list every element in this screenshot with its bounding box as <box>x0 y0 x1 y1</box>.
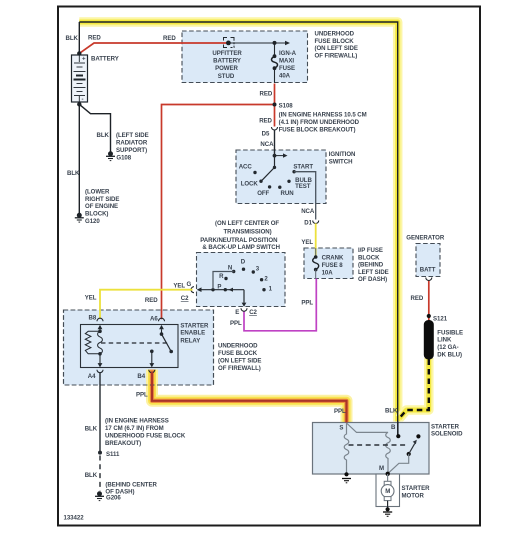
svg-text:SWITCH: SWITCH <box>329 159 353 166</box>
svg-text:OF DASH): OF DASH) <box>358 276 387 283</box>
svg-text:B4: B4 <box>137 373 145 380</box>
svg-text:BREAKOUT): BREAKOUT) <box>105 440 141 447</box>
svg-text:G108: G108 <box>116 155 131 162</box>
svg-text:10A: 10A <box>322 270 334 277</box>
svg-text:BATTERY: BATTERY <box>213 58 241 65</box>
svg-text:P: P <box>217 283 221 290</box>
svg-text:FUSE: FUSE <box>279 65 295 72</box>
svg-text:BLK: BLK <box>85 472 98 479</box>
svg-text:LOCK: LOCK <box>241 181 259 188</box>
svg-text:D: D <box>241 258 246 265</box>
svg-text:YEL: YEL <box>85 295 97 302</box>
svg-text:BLOCK: BLOCK <box>358 254 380 261</box>
svg-text:& BACK-UP LAMP SWITCH: & BACK-UP LAMP SWITCH <box>202 244 280 251</box>
svg-text:M: M <box>379 465 384 472</box>
svg-text:RED: RED <box>163 35 176 42</box>
svg-text:RUN: RUN <box>281 190 294 197</box>
svg-text:OF FIREWALL): OF FIREWALL) <box>218 365 261 372</box>
svg-text:DK BLU): DK BLU) <box>437 351 462 358</box>
svg-text:SOLENOID: SOLENOID <box>431 431 463 438</box>
svg-text:S108: S108 <box>279 103 294 110</box>
svg-text:-: - <box>82 96 84 103</box>
svg-text:UNDERHOOD: UNDERHOOD <box>218 343 258 350</box>
svg-text:MAXI: MAXI <box>279 58 294 65</box>
svg-text:G: G <box>187 281 192 288</box>
svg-text:A4: A4 <box>88 373 96 380</box>
svg-text:YEL: YEL <box>301 239 313 246</box>
svg-text:(ON LEFT CENTER OF: (ON LEFT CENTER OF <box>215 220 279 227</box>
svg-text:R: R <box>219 273 224 280</box>
svg-text:MOTOR: MOTOR <box>402 492 425 499</box>
svg-text:FUSE BLOCK BREAKOUT): FUSE BLOCK BREAKOUT) <box>279 127 356 134</box>
svg-text:17 CM (6.7 IN) FROM: 17 CM (6.7 IN) FROM <box>105 425 164 432</box>
svg-text:TEST: TEST <box>295 183 311 190</box>
svg-text:STUD: STUD <box>218 73 235 80</box>
svg-text:UNDERHOOD FUSE BLOCK: UNDERHOOD FUSE BLOCK <box>105 433 186 440</box>
svg-text:(ON LEFT SIDE: (ON LEFT SIDE <box>315 45 358 52</box>
svg-text:RED: RED <box>259 118 272 125</box>
svg-text:(ON LEFT SIDE: (ON LEFT SIDE <box>218 358 261 365</box>
svg-text:IGN-A: IGN-A <box>279 50 297 57</box>
svg-text:TRANSMISSION): TRANSMISSION) <box>224 229 272 236</box>
svg-text:FUSIBLE: FUSIBLE <box>437 329 463 336</box>
svg-text:BLOCK): BLOCK) <box>85 210 108 217</box>
svg-text:BLK: BLK <box>97 132 110 139</box>
svg-text:D5: D5 <box>262 131 270 138</box>
svg-text:S111: S111 <box>106 451 120 458</box>
svg-text:OF FIREWALL): OF FIREWALL) <box>315 53 358 60</box>
svg-text:A6: A6 <box>150 315 158 322</box>
svg-text:BATTERY: BATTERY <box>91 56 119 63</box>
svg-text:SUPPORT): SUPPORT) <box>116 147 147 154</box>
svg-text:BLK: BLK <box>85 425 98 432</box>
svg-text:PPL: PPL <box>136 391 148 398</box>
svg-text:OFF: OFF <box>257 190 269 197</box>
svg-text:G120: G120 <box>85 218 100 225</box>
svg-text:RIGHT SIDE: RIGHT SIDE <box>85 196 119 203</box>
svg-text:S: S <box>339 424 343 431</box>
svg-text:RED: RED <box>260 91 273 98</box>
svg-text:RED: RED <box>88 35 101 42</box>
svg-text:STARTER: STARTER <box>180 322 209 329</box>
svg-text:E: E <box>235 309 239 316</box>
svg-text:POWER: POWER <box>215 65 238 72</box>
svg-text:PARK/NEUTRAL POSITION: PARK/NEUTRAL POSITION <box>200 237 277 244</box>
svg-text:RADIATOR: RADIATOR <box>116 140 148 147</box>
svg-text:I/P FUSE: I/P FUSE <box>358 247 383 254</box>
svg-text:C2: C2 <box>249 309 257 316</box>
svg-text:GENERATOR: GENERATOR <box>406 234 445 241</box>
svg-text:RED: RED <box>145 297 158 304</box>
svg-text:M: M <box>385 488 390 495</box>
svg-text:UNDERHOOD: UNDERHOOD <box>315 31 355 38</box>
svg-text:PPL: PPL <box>301 300 313 307</box>
svg-text:(12 GA-: (12 GA- <box>437 344 458 351</box>
svg-text:RELAY: RELAY <box>180 337 200 344</box>
svg-text:PPL: PPL <box>230 320 242 327</box>
svg-text:N: N <box>228 265 232 272</box>
svg-text:LINK: LINK <box>437 337 452 344</box>
svg-text:BATT: BATT <box>420 267 436 274</box>
svg-text:IGNITION: IGNITION <box>329 151 356 158</box>
svg-text:S121: S121 <box>433 315 448 322</box>
svg-text:(LOWER: (LOWER <box>85 189 110 196</box>
svg-text:+: + <box>82 56 86 63</box>
svg-text:BLK: BLK <box>66 35 79 42</box>
svg-text:(IN ENGINE HARNESS 10.5 CM: (IN ENGINE HARNESS 10.5 CM <box>279 112 367 119</box>
svg-text:OF ENGINE: OF ENGINE <box>85 203 118 210</box>
svg-text:RED: RED <box>411 295 424 302</box>
svg-text:LEFT SIDE: LEFT SIDE <box>358 269 389 276</box>
svg-text:UPFITTER: UPFITTER <box>212 50 242 57</box>
svg-text:CRANK: CRANK <box>322 255 344 262</box>
svg-text:START: START <box>293 163 313 170</box>
svg-text:40A: 40A <box>279 73 291 80</box>
svg-text:D1: D1 <box>304 220 312 227</box>
svg-text:BLK: BLK <box>385 408 398 415</box>
svg-text:C2: C2 <box>181 295 189 302</box>
svg-text:FUSE BLOCK: FUSE BLOCK <box>218 350 258 357</box>
svg-text:STARTER: STARTER <box>402 485 431 492</box>
svg-text:G206: G206 <box>106 494 121 501</box>
svg-text:133422: 133422 <box>64 515 85 522</box>
svg-text:(BEHIND: (BEHIND <box>358 262 384 269</box>
svg-text:FUSE 8: FUSE 8 <box>322 262 344 269</box>
svg-text:(LEFT SIDE: (LEFT SIDE <box>116 132 149 139</box>
svg-text:ACC: ACC <box>239 163 253 170</box>
svg-text:ENABLE: ENABLE <box>180 330 205 337</box>
svg-text:B: B <box>391 424 396 431</box>
svg-text:(4.1 IN) FROM UNDERHOOD: (4.1 IN) FROM UNDERHOOD <box>279 119 360 126</box>
svg-text:BLK: BLK <box>67 170 80 177</box>
svg-text:STARTER: STARTER <box>431 423 460 430</box>
svg-text:(IN ENGINE HARNESS: (IN ENGINE HARNESS <box>105 418 169 425</box>
svg-text:NCA: NCA <box>260 141 274 148</box>
svg-text:B8: B8 <box>89 314 97 321</box>
svg-text:PPL: PPL <box>334 408 346 415</box>
svg-text:YEL: YEL <box>173 282 185 289</box>
svg-text:NCA: NCA <box>301 208 315 215</box>
svg-text:FUSE BLOCK: FUSE BLOCK <box>315 38 355 45</box>
